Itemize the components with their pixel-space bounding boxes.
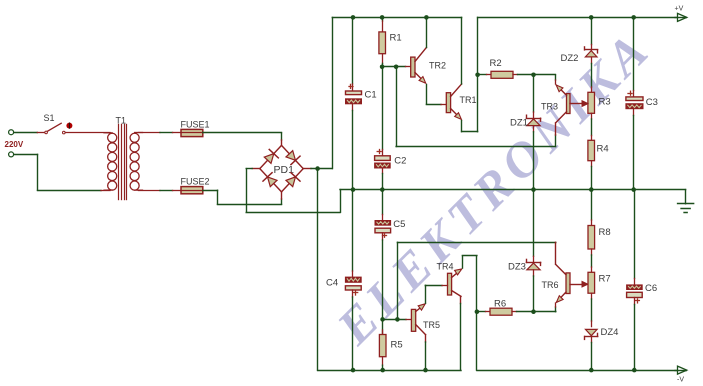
svg-text:R7: R7 bbox=[599, 274, 611, 285]
svg-text:C2: C2 bbox=[394, 155, 406, 166]
svg-text:-V: -V bbox=[677, 377, 684, 384]
svg-text:FUSE1: FUSE1 bbox=[181, 119, 210, 129]
svg-text:DZ4: DZ4 bbox=[601, 327, 619, 338]
svg-text:R4: R4 bbox=[597, 144, 609, 155]
svg-text:+V: +V bbox=[675, 6, 684, 13]
svg-text:C5: C5 bbox=[393, 219, 405, 230]
svg-text:DZ1: DZ1 bbox=[510, 117, 528, 128]
svg-text:C3: C3 bbox=[646, 97, 658, 108]
svg-text:C6: C6 bbox=[645, 283, 657, 294]
svg-text:R5: R5 bbox=[391, 340, 403, 351]
svg-text:FUSE2: FUSE2 bbox=[181, 177, 210, 187]
svg-text:R1: R1 bbox=[390, 32, 402, 43]
svg-text:S1: S1 bbox=[44, 113, 55, 123]
svg-text:C1: C1 bbox=[365, 90, 377, 101]
svg-text:TR2: TR2 bbox=[429, 60, 446, 70]
svg-text:TR4: TR4 bbox=[437, 262, 454, 272]
svg-text:R3: R3 bbox=[599, 97, 611, 108]
svg-text:C4: C4 bbox=[326, 277, 338, 288]
svg-text:R2: R2 bbox=[490, 58, 502, 69]
svg-text:PD1: PD1 bbox=[274, 164, 295, 176]
svg-text:220V: 220V bbox=[5, 140, 24, 149]
svg-text:DZ3: DZ3 bbox=[508, 262, 526, 273]
svg-text:TR5: TR5 bbox=[423, 320, 440, 330]
svg-text:TR3: TR3 bbox=[541, 102, 558, 112]
svg-text:R8: R8 bbox=[599, 227, 611, 238]
svg-text:TR6: TR6 bbox=[542, 280, 559, 290]
svg-text:DZ2: DZ2 bbox=[561, 53, 579, 64]
svg-text:R6: R6 bbox=[494, 299, 506, 310]
svg-text:TR1: TR1 bbox=[460, 95, 477, 105]
